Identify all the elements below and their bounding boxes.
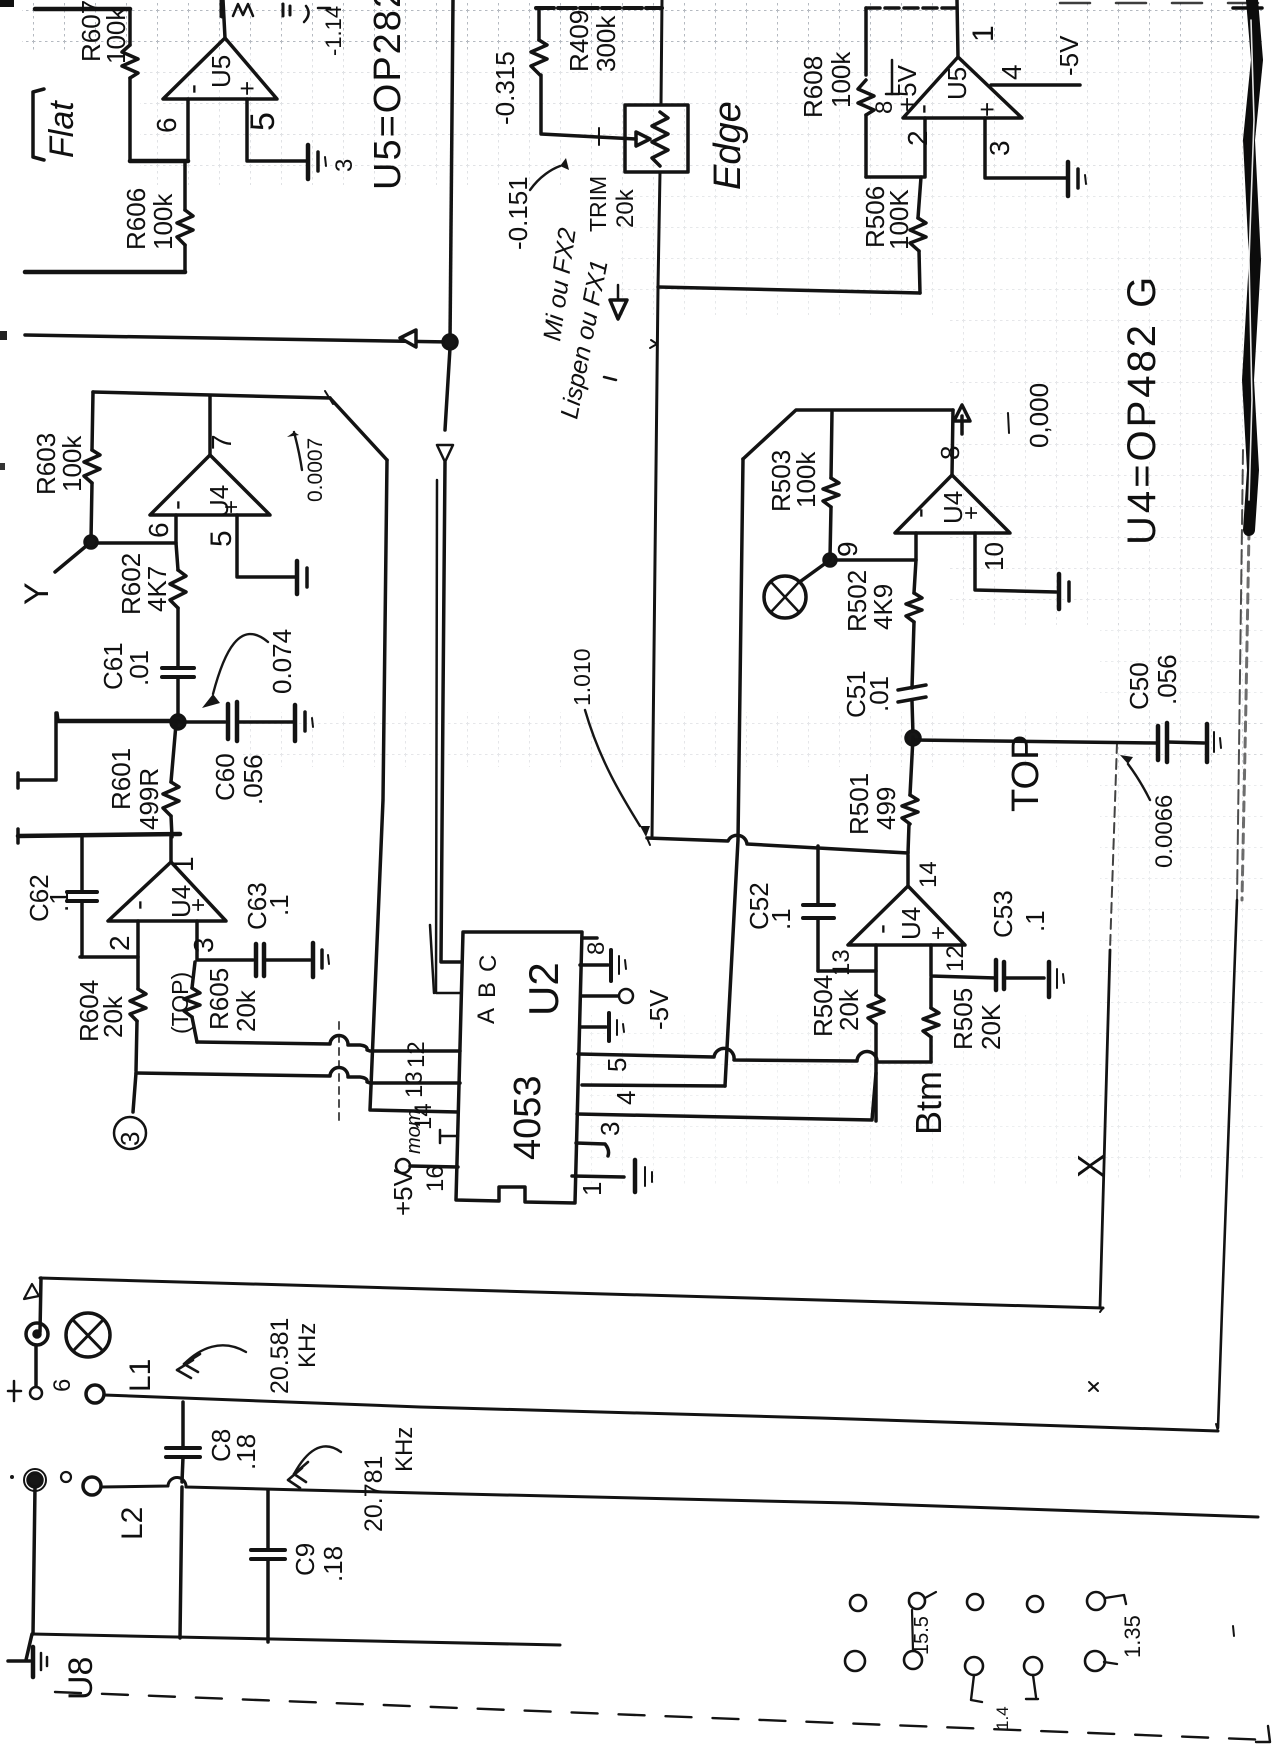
svg-text:6: 6	[143, 522, 174, 538]
svg-text:B: B	[474, 982, 501, 998]
svg-text:KHz: KHz	[391, 1427, 418, 1472]
svg-text:3: 3	[188, 937, 219, 953]
svg-text:.01: .01	[124, 650, 154, 686]
svg-text:-: -	[176, 84, 209, 94]
svg-text:12: 12	[403, 1041, 430, 1068]
svg-text:L2: L2	[116, 1507, 149, 1540]
svg-text:3: 3	[595, 1122, 625, 1136]
svg-text:4K9: 4K9	[868, 584, 898, 630]
svg-text:7: 7	[206, 434, 237, 450]
svg-text:20k: 20k	[231, 989, 261, 1032]
svg-text:499: 499	[871, 787, 901, 830]
svg-text:10: 10	[979, 542, 1009, 571]
svg-text:-: -	[122, 900, 155, 910]
svg-text:-: -	[903, 508, 936, 518]
svg-text:0.0007: 0.0007	[304, 438, 327, 502]
svg-text:14: 14	[915, 861, 942, 888]
svg-text:-5V: -5V	[644, 989, 674, 1030]
svg-text:(TOP): (TOP)	[167, 972, 193, 1034]
svg-text:mom: mom	[403, 1110, 425, 1154]
svg-text:499R: 499R	[134, 768, 164, 830]
svg-text:C9: C9	[290, 1543, 320, 1576]
svg-text:C60: C60	[210, 753, 240, 801]
svg-text:TRIM: TRIM	[585, 176, 611, 232]
svg-text:12: 12	[942, 945, 969, 972]
svg-text:R606: R606	[121, 188, 151, 250]
svg-text:1.4: 1.4	[993, 1706, 1012, 1730]
svg-text:20k: 20k	[612, 188, 639, 228]
svg-text:R409: R409	[564, 10, 594, 72]
svg-text:.1: .1	[1020, 910, 1050, 932]
svg-text:.056: .056	[238, 754, 268, 805]
svg-text:KHz: KHz	[294, 1323, 321, 1368]
svg-text:.1: .1	[44, 890, 74, 912]
svg-text:-0.151: -0.151	[503, 176, 533, 250]
svg-text:+: +	[972, 102, 1002, 117]
svg-text:C50: C50	[1124, 662, 1154, 710]
svg-text:.1: .1	[264, 894, 294, 916]
svg-text:8: 8	[583, 942, 610, 955]
svg-text:.18: .18	[318, 1546, 348, 1582]
svg-text:Flat: Flat	[43, 100, 81, 158]
svg-text:-5V: -5V	[1054, 35, 1084, 76]
svg-text:R601: R601	[106, 748, 136, 810]
svg-text:U4: U4	[896, 907, 926, 940]
svg-text:3: 3	[984, 140, 1015, 156]
svg-text:6: 6	[151, 117, 182, 133]
svg-text:300k: 300k	[591, 15, 621, 72]
svg-text:4K7: 4K7	[142, 566, 172, 612]
svg-text:100k: 100k	[791, 451, 821, 508]
svg-text:100k: 100k	[57, 435, 87, 492]
svg-text:6: 6	[49, 1379, 76, 1392]
svg-text:.1: .1	[766, 908, 796, 930]
svg-text:20.581: 20.581	[266, 1318, 294, 1394]
svg-text:100k: 100k	[148, 193, 178, 250]
svg-text:Y: Y	[18, 582, 56, 605]
svg-text:TOP: TOP	[1005, 735, 1047, 812]
svg-text:5: 5	[244, 112, 282, 131]
svg-text:0,000: 0,000	[1024, 383, 1054, 448]
svg-text:4: 4	[996, 64, 1027, 80]
svg-text:-: -	[160, 500, 193, 510]
svg-text:+: +	[958, 506, 985, 520]
svg-text:X: X	[1070, 1154, 1111, 1178]
svg-text:R505: R505	[948, 988, 978, 1050]
svg-text:1: 1	[168, 856, 199, 872]
svg-text:U5=OP282: U5=OP282	[367, 0, 409, 190]
svg-text:1: 1	[577, 1182, 607, 1196]
svg-text:C: C	[475, 955, 502, 972]
svg-text:100K: 100K	[884, 189, 914, 250]
svg-text:+: +	[185, 898, 212, 912]
svg-text:+: +	[925, 926, 952, 940]
svg-text:R501: R501	[844, 773, 874, 835]
svg-text:2: 2	[104, 935, 135, 951]
svg-text:A: A	[473, 1008, 500, 1024]
svg-text:13: 13	[401, 1071, 428, 1098]
svg-text:.18: .18	[231, 1434, 261, 1470]
svg-text:-: -	[906, 104, 939, 114]
svg-text:3: 3	[115, 1132, 145, 1146]
svg-text:20.781: 20.781	[360, 1456, 388, 1532]
svg-text:+: +	[232, 81, 262, 96]
svg-text:4: 4	[611, 1091, 641, 1105]
svg-text:100k: 100k	[826, 51, 856, 108]
svg-text:U2: U2	[520, 962, 567, 1016]
svg-text:Edge: Edge	[707, 101, 749, 190]
svg-text:9: 9	[832, 541, 863, 557]
svg-text:8: 8	[935, 446, 965, 460]
svg-text:R608: R608	[798, 56, 828, 118]
svg-text:5: 5	[602, 1058, 632, 1072]
svg-text:+5V: +5V	[388, 1168, 418, 1216]
svg-text:-1.14: -1.14	[321, 6, 346, 56]
svg-text:1.010: 1.010	[569, 648, 595, 706]
svg-text:0.074: 0.074	[267, 629, 297, 694]
svg-text:4053: 4053	[507, 1075, 549, 1160]
svg-text:.01: .01	[864, 676, 894, 712]
svg-text:U4=OP482 G: U4=OP482 G	[1120, 274, 1164, 545]
svg-text:15.5: 15.5	[911, 1616, 933, 1655]
svg-text:.056: .056	[1152, 654, 1182, 705]
svg-text:3: 3	[331, 159, 358, 172]
svg-text:C53: C53	[988, 890, 1018, 938]
svg-text:16: 16	[422, 1165, 449, 1192]
svg-text:+: +	[218, 500, 245, 514]
svg-text:13: 13	[828, 949, 855, 976]
svg-text:Btm: Btm	[908, 1071, 949, 1135]
svg-text:2: 2	[902, 130, 933, 146]
svg-text:0.0066: 0.0066	[1151, 795, 1178, 868]
svg-text:20K: 20K	[976, 1003, 1006, 1050]
svg-text:-: -	[865, 924, 898, 934]
svg-text:5: 5	[205, 530, 238, 547]
svg-text:U5: U5	[942, 67, 972, 100]
svg-text:20k: 20k	[834, 988, 864, 1031]
svg-text:U8: U8	[62, 1657, 100, 1700]
svg-text:20k: 20k	[98, 995, 128, 1038]
svg-text:1.35: 1.35	[1120, 1615, 1145, 1658]
svg-text:100k: 100k	[101, 7, 131, 64]
svg-text:1: 1	[967, 25, 1000, 42]
svg-text:L1: L1	[124, 1359, 157, 1392]
svg-text:-0.315: -0.315	[490, 51, 520, 125]
svg-text:R605: R605	[204, 968, 234, 1030]
